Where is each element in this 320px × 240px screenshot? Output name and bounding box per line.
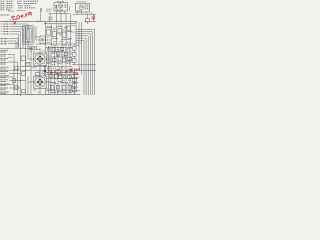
- resistor box R: [58, 29, 62, 34]
- input wires: [9, 38, 19, 40]
- IF transformer box 1: [47, 30, 51, 36]
- right column components x73: [72, 47, 76, 51]
- wire drops from T1 bus to rail: [49, 14, 51, 22]
- V2 diagonal pins: [35, 77, 37, 79]
- center mesh y46-66 verticals: [50, 46, 52, 66]
- red annotation top-right corner: [92, 16, 95, 19]
- grid cap box above V1: [30, 46, 37, 50]
- small box left mid: [21, 56, 26, 61]
- junction dots mesh: [50, 26, 53, 29]
- terminal wires fanning to bus: [10, 23, 28, 25]
- small text in mesh: [47, 25, 75, 42]
- parts list text block top-left: [0, 1, 38, 10]
- junction dot B: [37, 21, 38, 22]
- small parts in center mesh: [52, 48, 55, 51]
- red oval annotation center: [50, 68, 80, 76]
- bottom rails: [0, 94, 80, 96]
- horizontal rail through bus: [72, 64, 96, 66]
- mesh fine texture labels: [33, 30, 77, 93]
- junction dots lower-left: [14, 70, 15, 71]
- label left of T1: [46, 9, 64, 19]
- center mesh horizontals: [46, 47, 72, 49]
- V1 diagonal pins: [35, 54, 37, 56]
- red note right of oval: [67, 68, 80, 73]
- wires below T1: [56, 11, 58, 14]
- tube V1 electrodes: [38, 55, 41, 57]
- label above T1: [57, 0, 64, 2]
- mesh horizontals: [44, 23, 76, 25]
- red tick left of oval: [50, 72, 53, 74]
- mesh mid horizontals: [46, 27, 52, 29]
- coupling box above V2: [35, 72, 39, 75]
- lower-left text rows: [0, 67, 9, 93]
- small parts under T2: [86, 19, 90, 22]
- capacitor box: [67, 26, 71, 30]
- small boxes lower-left: [15, 66, 19, 69]
- lower-left input labels: [1, 39, 9, 44]
- extra note text row: [8, 10, 26, 12]
- speaker circle inside T2: [79, 5, 84, 10]
- right-side nested corner bus: [76, 30, 95, 96]
- tube V2 circle: [35, 77, 45, 87]
- link stub between T1 and T2: [69, 6, 71, 11]
- tube V2 electrodes: [38, 78, 41, 80]
- dark speck junctions in mesh: [45, 23, 70, 95]
- V1 pin wires: [39, 48, 41, 53]
- red annotation top-left: [11, 12, 31, 25]
- IF transformer box 3: [62, 32, 67, 38]
- left mid labels: [0, 50, 8, 64]
- electrolytic cap C20 under V1: [44, 67, 46, 76]
- wire drop x40: [40, 8, 42, 21]
- bottom mesh verticals: [50, 66, 52, 95]
- label above T2: [77, 1, 87, 3]
- caption text row: [0, 14, 10, 16]
- tube V1 socket square: [34, 53, 46, 65]
- wires below T2: [77, 12, 79, 14]
- output transformer T1 box: [54, 3, 67, 11]
- speaker circle inside T1: [58, 4, 62, 8]
- node bus under T1: [49, 13, 71, 15]
- antenna leads: [34, 36, 40, 38]
- bottom-right component column: [73, 78, 77, 81]
- mid rail below V1: [20, 66, 72, 68]
- bottom component boxes: [49, 75, 52, 78]
- speaker/transformer T2 box: [76, 3, 90, 12]
- loop antenna L1 (nested rectangles): [23, 26, 34, 45]
- junction dot A: [6, 21, 7, 22]
- terminal strip labels left: [3, 24, 9, 34]
- main horizontal rail: [0, 20, 77, 22]
- coil symbol in T1: [56, 5, 57, 9]
- terminal bracket: [1, 24, 3, 34]
- trimmer box at antenna output: [40, 36, 45, 44]
- lower-left wires: [0, 69, 34, 71]
- wire under T2 right: [84, 21, 96, 23]
- middle IF stage mesh verticals: [45, 22, 47, 53]
- tube V1 circle: [35, 54, 45, 64]
- junction dots on rail y72.8: [47, 72, 48, 73]
- rail tick: [10, 19, 12, 22]
- tube V2 socket square: [34, 76, 46, 88]
- junction dots on rail: [50, 21, 51, 22]
- V2 pin wires: [39, 70, 41, 76]
- center-bottom rails: [34, 69, 96, 71]
- red tail strokes below: [73, 72, 78, 75]
- text inside T2: [77, 5, 89, 11]
- left mid rails: [0, 47, 33, 49]
- bus under T2: [73, 13, 96, 15]
- IF transformer box 2: [52, 32, 56, 37]
